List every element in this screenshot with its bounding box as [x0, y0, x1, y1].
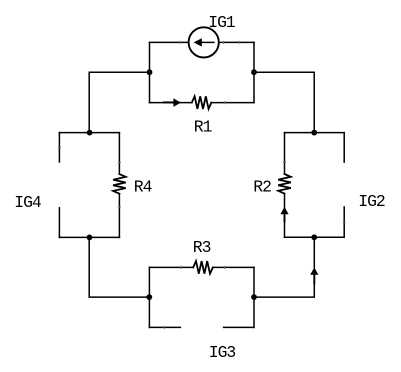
current source IG4 pin stub bottom: [58, 208, 60, 238]
wire from bottom loop right to right loop bottom: [254, 237, 314, 297]
wire R2 bottom segment: [284, 194, 286, 238]
current source IG2 pin stub bottom: [343, 207, 345, 237]
wire R1 right segment: [211, 102, 254, 104]
node dot bottom loop right: [251, 294, 257, 300]
pin tick IG1 left: [178, 41, 180, 44]
current source IG2 pin stub top: [343, 133, 345, 163]
pin tick IG3 left: [163, 326, 165, 329]
current direction arrow on right riser wire: [310, 267, 318, 283]
current source IG3 pin stub left: [149, 326, 180, 328]
current source IG4 pin stub top: [58, 133, 60, 162]
wire IG1 loop right vertical: [253, 42, 255, 102]
pin tick R3 right: [224, 266, 226, 269]
wire R4 top segment: [118, 133, 120, 175]
node dot top-left: [147, 69, 153, 75]
pin tick IG1 right: [223, 41, 225, 44]
wire R1 left segment: [150, 102, 192, 104]
wire from top-right node to right loop top: [254, 72, 314, 132]
pin tick R2 top: [283, 161, 286, 163]
current source IG1: [189, 27, 219, 57]
wire left loop bottom: [59, 236, 119, 238]
svg-text:R3: R3: [193, 238, 211, 257]
wire left loop top: [59, 132, 119, 134]
svg-text:IG3: IG3: [209, 343, 236, 362]
pin tick IG2 bottom: [343, 221, 346, 223]
svg-text:R4: R4: [134, 178, 152, 197]
wire bottom loop left vertical: [148, 267, 150, 327]
svg-text:R1: R1: [194, 118, 213, 137]
wire R2 top segment: [284, 133, 286, 174]
current source IG3 pin stub right: [224, 326, 254, 328]
node dot top-right: [251, 69, 257, 75]
node dot bottom loop left: [146, 294, 152, 300]
svg-text:IG1: IG1: [208, 13, 236, 32]
current direction arrow on R2 wire: [280, 207, 288, 222]
resistor R2: [278, 174, 291, 194]
svg-text:IG4: IG4: [14, 193, 41, 212]
node dot left loop top: [87, 130, 93, 136]
wire R4 bottom segment: [118, 194, 120, 238]
wire IG1 top left segment: [149, 41, 188, 43]
pin tick R4 top: [118, 162, 121, 164]
pin tick IG4 top: [58, 146, 61, 148]
wire right loop bottom: [285, 236, 345, 238]
current direction arrow on R1 wire: [164, 98, 181, 107]
wire right loop top: [285, 132, 345, 134]
resistor R3: [193, 261, 213, 274]
wire IG1 loop left vertical: [149, 42, 151, 102]
pin tick R4 bottom: [118, 206, 121, 208]
wire R3 left segment: [149, 266, 193, 268]
resistor R1: [192, 96, 212, 109]
node dot left loop bottom: [87, 235, 93, 241]
svg-text:IG2: IG2: [358, 192, 385, 211]
node dot right loop top: [311, 130, 317, 136]
wire IG1 top right segment: [219, 41, 254, 43]
svg-text:R2: R2: [253, 178, 271, 197]
wire bottom loop right vertical: [253, 267, 255, 327]
wire from left loop bottom to bottom loop left: [89, 237, 149, 297]
wire from top-left node to left loop top: [89, 72, 149, 132]
wire segment tick top right: [239, 41, 241, 44]
pin tick R1 right: [224, 101, 226, 104]
node dot right loop bottom: [311, 234, 317, 240]
pin tick R3 left: [180, 266, 182, 269]
wire R3 right segment: [213, 266, 254, 268]
resistor R4: [113, 174, 126, 194]
